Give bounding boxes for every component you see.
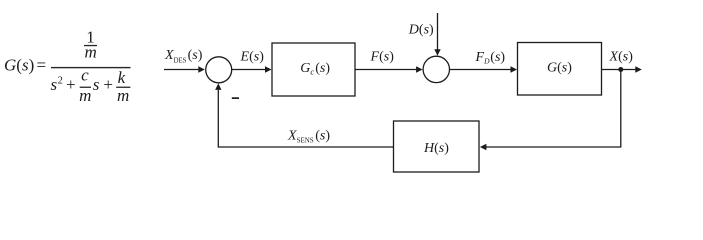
svg-text:k: k (118, 68, 126, 87)
wire: H to left run (218, 146, 393, 148)
svg-text:E(s): E(s) (240, 50, 265, 65)
wire: feedback rise to summing junction 1 (217, 90, 219, 148)
wire: feedback into H from right (486, 146, 621, 148)
arrowhead: into summing junction 1 (bottom) (215, 83, 221, 90)
svg-text:+: + (103, 75, 113, 94)
minus sign at feedback input (232, 97, 239, 99)
svg-text:s: s (51, 75, 58, 94)
node: output branch dot (618, 67, 623, 72)
svg-text:F(s): F(s) (370, 49, 395, 64)
svg-text:m: m (79, 86, 91, 105)
wire: summing junction 2 to G (450, 69, 511, 71)
wire: input to summing junction 1 (164, 69, 199, 71)
svg-text:XDES(s): XDES(s) (164, 48, 203, 64)
summing junction 2 (423, 56, 449, 82)
svg-text:FD(s): FD(s) (475, 50, 506, 66)
arrowhead: into Gc (265, 66, 272, 72)
wire: D(s) drop line (437, 13, 439, 50)
svg-text:XSENS(s): XSENS(s) (287, 129, 330, 145)
svg-text:+: + (66, 75, 76, 94)
arrowhead: into summing junction 2 (left) (416, 66, 423, 72)
arrowhead: output (635, 66, 642, 72)
svg-text:G(s)=: G(s)= (4, 56, 46, 75)
svg-text:G(s): G(s) (547, 61, 572, 76)
svg-text:2: 2 (58, 76, 63, 87)
svg-text:s: s (93, 75, 100, 94)
arrowhead: into H (480, 144, 487, 150)
svg-text:H(s): H(s) (423, 141, 449, 156)
wire: G to output (602, 69, 637, 71)
formula denominator s^2 + c/m s + k/m (51, 66, 131, 105)
svg-text:X(s): X(s) (609, 50, 634, 65)
summing junction 1 (206, 57, 232, 83)
svg-text:c: c (81, 66, 89, 85)
block G(s) (518, 43, 602, 96)
wire: Gc to summing junction 2 (355, 69, 417, 71)
svg-text:Gc(s): Gc(s) (300, 61, 330, 77)
svg-text:m: m (84, 42, 96, 61)
arrowhead: into G (511, 66, 518, 72)
arrowhead: into summing junction 2 (top) (434, 49, 440, 56)
block H(s) (394, 121, 480, 172)
formula G(s)= lead-in (4, 56, 46, 75)
block Gc(s) (272, 43, 355, 96)
formula numerator 1 over m (84, 28, 97, 62)
arrowhead: into summing junction 1 (198, 66, 205, 72)
wire: summing junction 1 to Gc (232, 69, 265, 71)
wire: feedback drop from output node (620, 70, 622, 148)
svg-text:m: m (117, 86, 129, 105)
svg-text:D(s): D(s) (408, 23, 434, 38)
formula main fraction bar (51, 67, 131, 68)
